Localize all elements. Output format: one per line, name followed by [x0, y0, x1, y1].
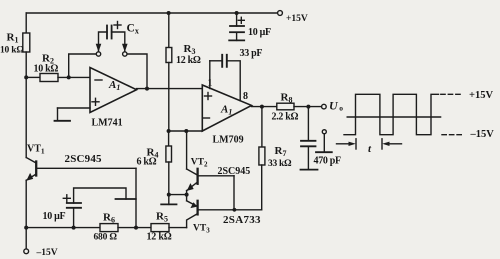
svg-text:LM741: LM741	[92, 118, 123, 129]
svg-text:10 μF: 10 μF	[43, 211, 66, 222]
svg-text:6 kΩ: 6 kΩ	[137, 157, 157, 168]
svg-text:1: 1	[208, 79, 213, 89]
svg-text:12 kΩ: 12 kΩ	[147, 232, 172, 243]
svg-text:U: U	[329, 99, 339, 113]
svg-text:10 μF: 10 μF	[248, 27, 271, 38]
svg-text:8: 8	[243, 91, 248, 102]
svg-text:33 kΩ: 33 kΩ	[268, 159, 292, 169]
svg-text:–15V: –15V	[36, 248, 58, 258]
svg-text:680 Ω: 680 Ω	[94, 233, 118, 243]
svg-text:2SA733: 2SA733	[223, 214, 261, 226]
svg-text:10 kΩ: 10 kΩ	[0, 46, 24, 56]
svg-text:+15V: +15V	[469, 90, 493, 101]
svg-text:–15V: –15V	[470, 129, 495, 140]
svg-text:2.2 kΩ: 2.2 kΩ	[272, 112, 299, 123]
svg-text:2SC945: 2SC945	[65, 153, 103, 165]
svg-text:+15V: +15V	[286, 14, 308, 24]
svg-text:o: o	[339, 104, 343, 113]
svg-text:33 pF: 33 pF	[240, 48, 263, 59]
svg-text:2SC945: 2SC945	[218, 166, 251, 177]
svg-text:470 pF: 470 pF	[314, 156, 342, 167]
svg-text:10 kΩ: 10 kΩ	[34, 64, 59, 75]
svg-text:12 kΩ: 12 kΩ	[176, 55, 201, 66]
svg-text:LM709: LM709	[213, 135, 244, 146]
